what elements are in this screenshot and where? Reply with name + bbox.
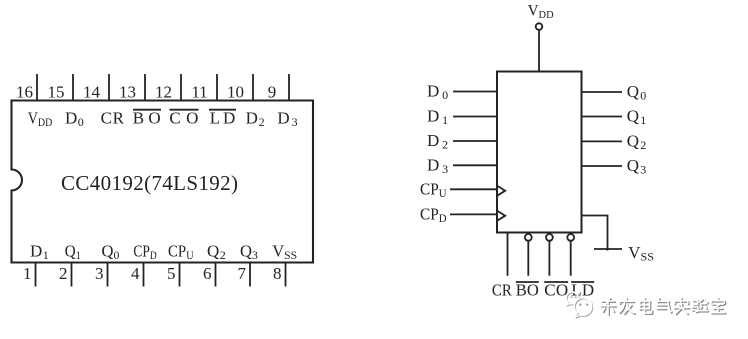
svg-text:CO: CO <box>544 281 568 300</box>
active-low bubble BO <box>525 234 532 241</box>
svg-text:15: 15 <box>48 83 65 102</box>
overline of BO (pin 13) <box>133 109 161 111</box>
watermark text: char 验 <box>692 298 708 312</box>
svg-text:CPD: CPD <box>420 204 447 225</box>
svg-text:Q2: Q2 <box>627 131 647 152</box>
svg-text:7: 7 <box>238 264 247 283</box>
svg-text:LD: LD <box>210 109 236 128</box>
VDD terminal wire <box>538 30 540 72</box>
svg-text:D0: D0 <box>427 82 448 103</box>
pin 8 lead <box>285 263 287 287</box>
wire input D1 <box>453 116 497 118</box>
watermark logo bubbles <box>566 292 592 318</box>
active-low bubble CO <box>546 234 553 241</box>
wire clock input CPD <box>450 213 497 215</box>
svg-text:D0: D0 <box>65 109 84 130</box>
pin 14 lead <box>108 74 110 101</box>
svg-text:16: 16 <box>16 83 33 102</box>
wire output Q3 <box>582 165 623 167</box>
svg-text:11: 11 <box>191 83 207 102</box>
overline of CO label <box>544 281 568 283</box>
wire VSS net <box>582 216 608 251</box>
pin 13 lead <box>144 74 146 101</box>
svg-text:D3: D3 <box>427 155 448 176</box>
svg-text:12: 12 <box>155 83 172 102</box>
wire output Q0 <box>582 91 623 93</box>
pin 11 lead <box>216 74 218 101</box>
overline of LD (pin 11) <box>209 109 236 111</box>
svg-text:BO: BO <box>516 281 539 300</box>
watermark text: char 气 <box>657 298 673 313</box>
svg-text:D1: D1 <box>30 242 49 263</box>
pin 1 lead <box>35 263 37 287</box>
wire output Q2 <box>582 140 623 142</box>
pin 4 lead <box>143 263 145 287</box>
svg-text:6: 6 <box>203 264 212 283</box>
svg-text:Q3: Q3 <box>240 242 258 263</box>
overline of BO label <box>516 281 539 283</box>
wire input D0 <box>453 91 497 93</box>
svg-text:5: 5 <box>167 264 176 283</box>
svg-text:Q1: Q1 <box>65 242 81 263</box>
svg-text:3: 3 <box>95 264 104 283</box>
wire CO pin <box>548 241 550 276</box>
svg-text:VSS: VSS <box>272 242 297 263</box>
svg-text:CR: CR <box>492 281 513 300</box>
pin 15 lead <box>72 74 74 101</box>
wire BO pin <box>527 241 529 276</box>
pin 7 lead <box>249 263 251 287</box>
svg-text:VDD: VDD <box>528 3 554 22</box>
pin 16 lead <box>36 74 38 101</box>
svg-text:CPU: CPU <box>420 179 447 200</box>
svg-text:Q1: Q1 <box>627 107 647 128</box>
svg-text:VSS: VSS <box>628 243 654 264</box>
watermark text: char 室 <box>711 298 726 314</box>
pin 5 lead <box>179 263 181 287</box>
wire output Q1 <box>582 116 623 118</box>
svg-text:10: 10 <box>227 83 244 102</box>
svg-text:D2: D2 <box>427 131 448 152</box>
wire clock input CPU <box>450 188 497 190</box>
svg-text:CPU: CPU <box>168 242 194 263</box>
svg-text:1: 1 <box>23 264 32 283</box>
svg-text:D2: D2 <box>246 109 265 130</box>
pin 12 lead <box>180 74 182 101</box>
svg-text:Q0: Q0 <box>102 242 120 263</box>
svg-text:CC40192(74LS192): CC40192(74LS192) <box>61 171 238 195</box>
svg-text:Q3: Q3 <box>627 156 647 177</box>
VSS terminal bar <box>594 248 622 250</box>
svg-text:LD: LD <box>571 281 594 300</box>
overline of LD label <box>571 281 594 283</box>
svg-text:Q0: Q0 <box>627 82 647 103</box>
wire CR pin <box>507 233 509 276</box>
watermark text: char 实 <box>674 298 690 315</box>
watermark text: char 东 <box>601 298 726 315</box>
pin 2 lead <box>71 263 73 287</box>
wire input D2 <box>453 140 497 142</box>
svg-text:8: 8 <box>273 264 282 283</box>
pin 3 lead <box>107 263 109 287</box>
watermark text: char 电 <box>640 298 653 314</box>
svg-text:D1: D1 <box>427 107 448 128</box>
VDD terminal circle <box>536 23 543 30</box>
wire input D3 <box>453 164 497 166</box>
clock triangle CPD <box>497 211 505 221</box>
clock triangle CPU <box>497 186 505 196</box>
svg-text:4: 4 <box>131 264 140 283</box>
svg-text:VDD: VDD <box>28 109 53 130</box>
pin 6 lead <box>215 263 217 287</box>
pin 9 lead <box>288 74 290 101</box>
counter logic symbol U2 body <box>497 72 582 233</box>
svg-text:CO: CO <box>169 109 198 128</box>
svg-text:D3: D3 <box>277 109 297 130</box>
overline of CO (pin 12) <box>170 109 199 111</box>
watermark text: char 农 <box>620 298 636 314</box>
svg-text:13: 13 <box>119 83 136 102</box>
svg-text:BO: BO <box>133 109 161 128</box>
svg-text:CPD: CPD <box>133 242 157 263</box>
wire LD pin <box>570 241 572 276</box>
svg-text:Q2: Q2 <box>207 242 226 263</box>
DIP package U1 body CC40192 <box>12 101 314 263</box>
svg-text:9: 9 <box>268 83 277 102</box>
svg-text:14: 14 <box>83 83 101 102</box>
active-low bubble LD <box>567 234 574 241</box>
svg-text:CR: CR <box>101 109 125 128</box>
svg-text:2: 2 <box>59 264 68 283</box>
pin 10 lead <box>252 74 254 101</box>
